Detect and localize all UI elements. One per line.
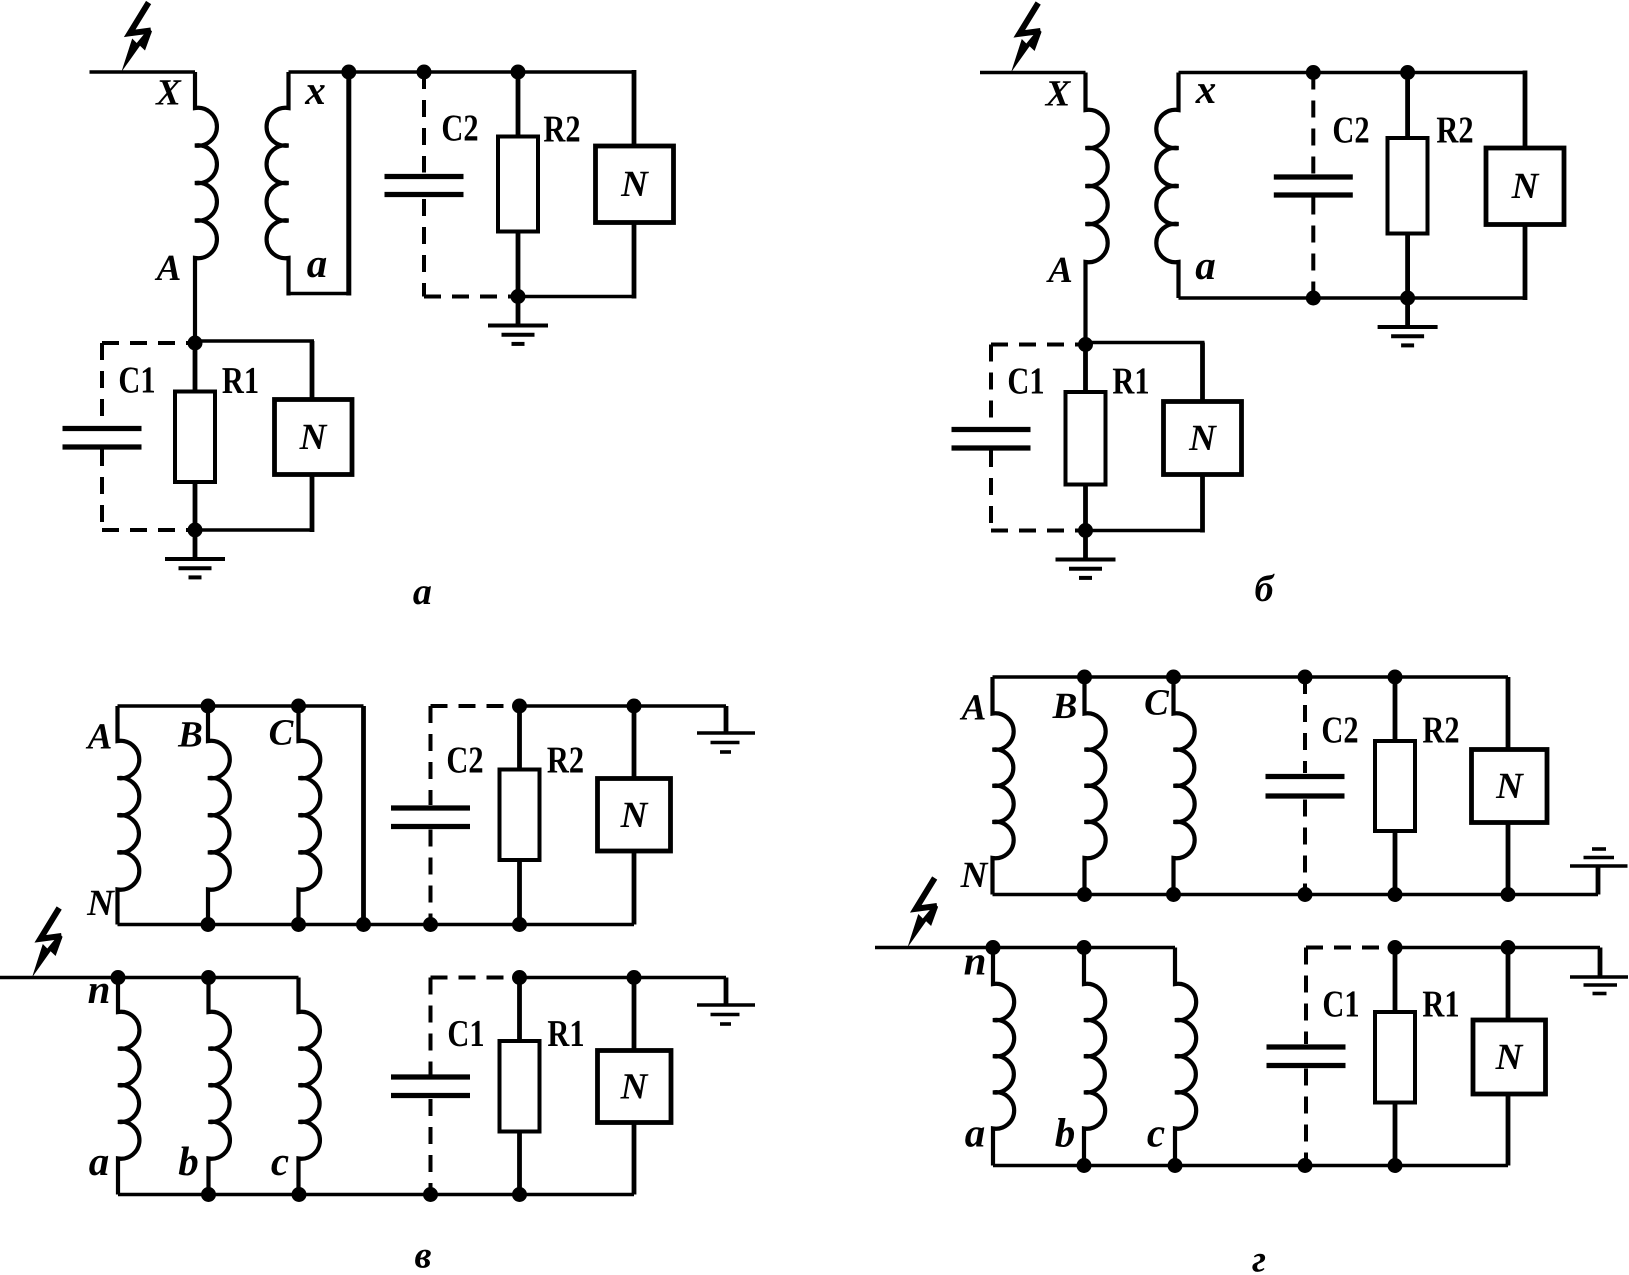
- svg-text:A: A: [960, 688, 987, 729]
- winding phase a circuit g: [993, 948, 1014, 1166]
- svg-text:X: X: [155, 73, 182, 114]
- junction dot n top circuit g: [986, 940, 1001, 955]
- svg-text:N: N: [86, 883, 115, 924]
- svg-text:x: x: [304, 67, 326, 113]
- svg-text:a: a: [89, 1138, 110, 1184]
- wire top to R2: [516, 72, 521, 137]
- winding phase c circuit v: [299, 978, 320, 1195]
- svg-text:N: N: [620, 164, 649, 205]
- svg-text:C1: C1: [447, 1013, 484, 1055]
- lightning strike arrow circuit b: [1019, 3, 1040, 34]
- capacitor C1 circuit v: [391, 1074, 470, 1079]
- svg-text:а: а: [413, 571, 432, 613]
- wire top to R1 circuit v: [517, 978, 522, 1042]
- svg-text:R2: R2: [543, 108, 580, 150]
- svg-text:b: b: [178, 1138, 199, 1184]
- capacitor C1 dashed connection circuit v: [431, 976, 520, 980]
- wire R2 to bottom rail circuit v: [517, 860, 522, 925]
- wire N to ground node circuit b: [1200, 475, 1205, 533]
- resistor R2 circuit b: [1388, 138, 1428, 234]
- winding X-A primary transformer T1: [195, 72, 217, 343]
- bottom rail dots circuit v HV: [201, 917, 216, 932]
- capacitor C1 circuit g: [1267, 1044, 1346, 1049]
- winding x-a secondary transformer T1: [267, 72, 289, 296]
- junction dot R2 top: [511, 65, 526, 80]
- winding phase A circuit g: [993, 677, 1014, 895]
- wire N to bottom rail circuit b: [1523, 225, 1528, 301]
- junction dot C top: [291, 699, 306, 714]
- bottom rail dots circuit g HV: [1077, 887, 1092, 902]
- capacitor C1 circuit b: [952, 427, 1031, 432]
- winding phase B circuit g: [1085, 677, 1106, 895]
- wire top to R2 circuit b: [1405, 73, 1410, 139]
- secondary top rail circuit a: [289, 70, 635, 74]
- LV right top rail circuit v: [520, 976, 727, 980]
- svg-text:N: N: [620, 795, 649, 836]
- svg-text:R2: R2: [1422, 709, 1459, 751]
- HV top rail circuit v: [118, 704, 364, 708]
- lightning strike arrow circuit g: [916, 878, 937, 909]
- load box N (R2 branch) circuit b: [1486, 148, 1564, 225]
- junction dot C2 bottom circuit b: [1306, 291, 1321, 306]
- winding phase A circuit v: [118, 706, 140, 925]
- svg-text:X: X: [1045, 74, 1072, 115]
- svg-text:C: C: [1144, 683, 1170, 724]
- junction dot N top LV circuit v: [627, 970, 642, 985]
- ground node dot circuit a primary: [188, 523, 203, 538]
- capacitor C1 dashed connection box circuit b: [991, 343, 1086, 347]
- ground symbol circuit a secondary: [516, 297, 521, 326]
- wire N to bottom rail circuit v: [632, 851, 637, 925]
- load box N HV circuit g: [1472, 750, 1548, 823]
- junction dot R2 top circuit b: [1400, 65, 1415, 80]
- ground symbol circuit a primary: [193, 530, 198, 559]
- svg-text:C2: C2: [1332, 109, 1369, 151]
- svg-text:R1: R1: [1112, 360, 1149, 402]
- bottom rail dots circuit g LV: [1077, 1158, 1092, 1173]
- winding x-a secondary transformer T2: [1156, 73, 1178, 299]
- svg-text:C1: C1: [1007, 360, 1044, 402]
- wire N to bottom rail LV circuit v: [632, 1123, 637, 1195]
- svg-text:C2: C2: [1321, 709, 1358, 751]
- svg-text:B: B: [177, 715, 203, 756]
- ground node dot circuit a secondary: [511, 289, 526, 304]
- junction dot R1 top circuit v: [512, 970, 527, 985]
- ground symbol HV circuit v: [724, 706, 729, 733]
- ground symbol HV circuit g (inverted): [1596, 866, 1601, 895]
- ground node dot circuit b secondary: [1400, 291, 1415, 306]
- svg-text:b: b: [1055, 1110, 1076, 1156]
- svg-text:R2: R2: [1436, 109, 1473, 151]
- winding phase C circuit g: [1174, 677, 1195, 895]
- svg-text:x: x: [1195, 66, 1217, 112]
- resistor R2: [498, 137, 538, 232]
- capacitor C2 circuit v: [391, 805, 470, 810]
- top rail dots circuit g HV: [1077, 670, 1092, 685]
- wire node A to N load circuit b: [1086, 341, 1205, 345]
- wire N to ground node: [310, 475, 315, 533]
- svg-text:C2: C2: [446, 739, 483, 781]
- capacitor C2 circuit b: [1274, 174, 1353, 179]
- svg-text:N: N: [1495, 766, 1524, 807]
- winding phase a circuit v: [118, 978, 139, 1195]
- HV top rail circuit g: [993, 675, 1509, 679]
- junction dot n top: [111, 970, 126, 985]
- svg-text:R1: R1: [222, 360, 259, 402]
- wire rail to N load LV circuit g: [1506, 948, 1511, 1021]
- load box N HV circuit v: [598, 779, 671, 852]
- svg-text:A: A: [86, 717, 113, 758]
- ground symbol circuit b secondary: [1405, 298, 1410, 327]
- svg-text:a: a: [307, 240, 328, 286]
- LV top rail circuit g: [875, 946, 1175, 950]
- right vertical wire winding group circuit v: [361, 706, 366, 925]
- HV bottom rail circuit v: [118, 923, 635, 927]
- svg-text:C2: C2: [441, 107, 478, 149]
- svg-text:C1: C1: [1322, 983, 1359, 1025]
- junction dot b top circuit g: [1077, 940, 1092, 955]
- junction dot b top: [201, 970, 216, 985]
- resistor R1: [175, 392, 215, 483]
- winding phase b circuit v: [209, 978, 230, 1195]
- wire HV line circuit b: [980, 71, 1086, 75]
- wire R2 to ground node: [516, 232, 521, 297]
- capacitor C2 circuit g: [1266, 774, 1345, 779]
- svg-text:C1: C1: [118, 359, 155, 401]
- winding phase C circuit v: [299, 706, 321, 925]
- capacitor C2 dashed connection: [422, 72, 426, 173]
- load box N (R1 branch) circuit b: [1164, 402, 1242, 475]
- capacitor C1: [63, 426, 142, 431]
- svg-text:a: a: [965, 1110, 986, 1156]
- LV bottom rail circuit g: [993, 1164, 1508, 1168]
- capacitor C2 dashed connection circuit b: [1311, 73, 1315, 175]
- node junction dot A circuit b: [1078, 337, 1093, 352]
- junction dot secondary x: [341, 65, 356, 80]
- wire R2 to bottom rail circuit g: [1393, 831, 1398, 895]
- svg-text:A: A: [155, 248, 182, 289]
- wire N to bottom rail: [632, 223, 637, 299]
- wire top to R2 circuit g: [1393, 677, 1398, 741]
- wire R2 to ground node circuit b: [1405, 234, 1410, 299]
- resistor R2 circuit v: [500, 770, 540, 861]
- LV top rail circuit v: [0, 976, 299, 980]
- HV bottom rail circuit g: [993, 893, 1599, 897]
- wire node A to N load: [195, 339, 314, 343]
- LV right top rail circuit g: [1395, 946, 1600, 950]
- load box N LV circuit v: [598, 1051, 672, 1123]
- capacitor C2: [385, 174, 464, 179]
- svg-text:N: N: [620, 1067, 649, 1108]
- wire top to R2 circuit v: [517, 706, 522, 770]
- wire rail to N load circuit v: [632, 706, 637, 779]
- winding phase b circuit g: [1084, 948, 1105, 1166]
- load box N (R1 branch): [275, 400, 353, 475]
- svg-text:n: n: [88, 966, 111, 1012]
- wire top rail to N load: [632, 70, 637, 146]
- junction dot R2 top circuit v: [512, 699, 527, 714]
- lightning strike arrow circuit a: [130, 3, 151, 34]
- wire secondary right riser: [346, 72, 351, 296]
- svg-text:N: N: [1511, 166, 1540, 207]
- load box N LV circuit g: [1473, 1020, 1546, 1094]
- winding phase c circuit g: [1175, 948, 1196, 1166]
- ground symbol circuit b primary: [1083, 531, 1088, 560]
- svg-text:N: N: [960, 855, 989, 896]
- svg-text:N: N: [1495, 1037, 1524, 1078]
- svg-text:c: c: [1147, 1110, 1165, 1156]
- ground symbol LV circuit v: [724, 978, 729, 1006]
- junction dot C2 top: [417, 65, 432, 80]
- bottom rail dots circuit v LV: [201, 1187, 216, 1202]
- svg-text:a: a: [1195, 242, 1216, 288]
- svg-text:A: A: [1046, 250, 1073, 291]
- wire R1 to ground node: [193, 482, 198, 530]
- wire node A to R1 circuit b: [1083, 345, 1088, 393]
- junction dot R1 top circuit g: [1388, 940, 1403, 955]
- winding phase B circuit v: [208, 706, 230, 925]
- ground node dot circuit b primary: [1078, 523, 1093, 538]
- resistor R1 circuit v: [500, 1041, 540, 1132]
- junction dot N top circuit v: [627, 699, 642, 714]
- svg-text:B: B: [1052, 686, 1078, 727]
- winding X-A primary transformer T2: [1086, 73, 1108, 345]
- svg-text:c: c: [271, 1138, 289, 1184]
- junction dot B top: [201, 699, 216, 714]
- resistor R2 circuit g: [1375, 741, 1415, 831]
- resistor R1 circuit g: [1375, 1012, 1415, 1103]
- LV bottom rail circuit v: [118, 1193, 634, 1197]
- node junction dot A: [188, 336, 203, 351]
- resistor R1 circuit b: [1066, 392, 1106, 485]
- capacitor C2 dashed connection circuit g: [1303, 677, 1307, 773]
- junction dot N top LV circuit g: [1501, 940, 1516, 955]
- lightning strike arrow circuit v: [40, 908, 61, 939]
- wire top to R1 circuit g: [1393, 948, 1398, 1013]
- ground symbol LV circuit g: [1598, 948, 1603, 978]
- svg-text:г: г: [1252, 1239, 1266, 1275]
- svg-text:в: в: [415, 1235, 432, 1275]
- wire secondary bottom: [289, 292, 349, 296]
- secondary top rail circuit b: [1179, 71, 1526, 75]
- capacitor C1 dashed connection circuit g: [1306, 946, 1395, 950]
- wire R1 to ground node circuit b: [1083, 485, 1088, 531]
- wire node A to R1: [193, 343, 198, 392]
- capacitor C1 dashed connection box: [102, 341, 195, 345]
- load box N (R2 branch): [596, 146, 674, 223]
- wire HV line circuit a: [90, 70, 196, 74]
- HV right top rail circuit v: [520, 704, 727, 708]
- wire N to bottom rail circuit g: [1506, 823, 1511, 895]
- svg-text:C: C: [269, 713, 295, 754]
- wire R1 to bottom rail circuit g: [1393, 1103, 1398, 1166]
- wire rail to N load circuit g: [1506, 677, 1511, 750]
- svg-text:n: n: [964, 938, 987, 984]
- svg-text:R1: R1: [1422, 983, 1459, 1025]
- wire R1 to bottom rail circuit v: [517, 1132, 522, 1195]
- wire top rail to N load circuit b: [1523, 71, 1528, 149]
- svg-text:N: N: [1188, 418, 1217, 459]
- secondary bottom rail circuit b: [1179, 296, 1526, 300]
- svg-text:R1: R1: [547, 1013, 584, 1055]
- capacitor C2 dashed connection circuit v: [431, 704, 520, 708]
- junction dot C2 top circuit b: [1306, 65, 1321, 80]
- svg-text:б: б: [1255, 568, 1276, 610]
- svg-text:N: N: [299, 417, 328, 458]
- wire N to bottom rail LV circuit g: [1506, 1094, 1511, 1166]
- svg-text:R2: R2: [547, 739, 584, 781]
- wire rail to N load LV circuit v: [632, 978, 637, 1051]
